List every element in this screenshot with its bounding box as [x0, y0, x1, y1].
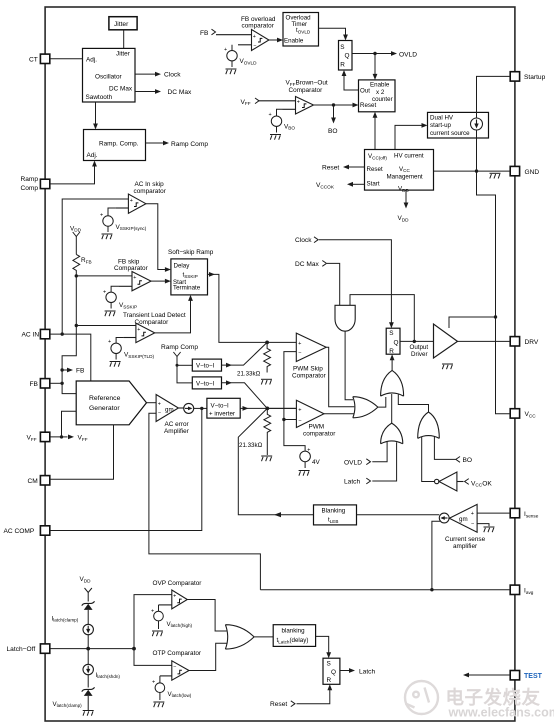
comparator FB skip: [119, 272, 151, 291]
source V latch high: [154, 605, 164, 629]
wire sawtooth to ramp comp: [95, 102, 97, 124]
label DC Max input: [295, 261, 327, 269]
svg-text:+: +: [151, 608, 154, 614]
wire Iavg riser to gm minus input: [149, 413, 261, 589]
svg-text:gm: gm: [459, 516, 468, 523]
svg-text:Jitter: Jitter: [116, 50, 131, 57]
gate OR D (bo vccok): [418, 412, 440, 438]
wire BO stub down: [333, 105, 335, 118]
wire riser to OTP plus: [134, 649, 172, 666]
svg-text:−: −: [253, 43, 256, 49]
svg-text:CM: CM: [28, 478, 38, 485]
label V_SSKIP: [119, 302, 137, 309]
wire DC Max output arrow: [135, 91, 156, 93]
ground under resistor lower: [261, 456, 272, 461]
wire jitter to oscillator: [123, 30, 125, 49]
label V_SSKIP(sync): [116, 224, 147, 231]
Y input symbol Ramp Comp: [173, 352, 192, 383]
comparator OVP: [159, 590, 188, 609]
svg-text:current source: current source: [430, 130, 470, 137]
wire FB label stub: [62, 369, 67, 371]
label OVLD out: [399, 51, 417, 58]
watermark logo circle: [405, 681, 438, 714]
label FB overload comparator: [241, 16, 276, 30]
svg-text:−: −: [298, 351, 301, 357]
svg-text:Q: Q: [394, 340, 399, 347]
label VDD stub: [398, 215, 410, 222]
svg-text:OVP Comparator: OVP Comparator: [153, 580, 203, 587]
svg-text:DC Max: DC Max: [168, 89, 193, 96]
svg-text:Adj.: Adj.: [87, 152, 98, 159]
svg-text:+: +: [100, 212, 103, 218]
label PWM comparator: [303, 423, 336, 437]
svg-text:FB: FB: [30, 381, 39, 388]
label Clock input: [295, 237, 318, 244]
svg-text:21.33kΩ: 21.33kΩ: [239, 442, 263, 449]
svg-text:OVLD: OVLD: [344, 459, 362, 466]
wire OR D output to OR A: [398, 394, 428, 412]
wire VCC to driver top: [449, 317, 496, 328]
wire comparator to timer arrow: [269, 39, 278, 41]
pin CT: [29, 54, 50, 63]
svg-text:+: +: [298, 407, 301, 413]
comparator AC In skip: [116, 194, 146, 213]
buffer output driver: [434, 324, 458, 358]
wire Q feedback to AND gate: [350, 295, 414, 342]
pin AC IN: [22, 329, 50, 338]
wire SR2 Q to driver: [400, 340, 434, 342]
svg-text:S: S: [389, 330, 393, 337]
svg-text:Jitter: Jitter: [114, 21, 129, 28]
svg-text:S: S: [340, 44, 344, 51]
label OVP Comparator: [153, 580, 203, 587]
wire startup pin to current source: [477, 76, 511, 118]
wire Iavg pin line: [260, 589, 510, 591]
svg-text:comparator: comparator: [134, 188, 167, 195]
label V_SSKIP(TLD): [124, 352, 154, 359]
svg-text:Ramp: Ramp: [21, 176, 39, 183]
wire current source down to GND rail junction: [476, 130, 478, 171]
counter x2 box: [359, 80, 396, 112]
wire blanking riser diagonal to junction2: [238, 408, 313, 514]
svg-text:+: +: [108, 339, 111, 345]
svg-text:+: +: [158, 401, 161, 407]
comparator PWM skip: [296, 333, 326, 361]
wire TEST arrow: [468, 674, 511, 676]
wire VDD stub below VCC mgmt: [405, 190, 407, 203]
wire HV current to Dual HV box: [395, 125, 422, 149]
svg-text:gm: gm: [165, 407, 174, 414]
label V latch low: [168, 691, 192, 698]
wire VCCOK inverter to OR D: [422, 437, 435, 482]
svg-text:+ inverter: + inverter: [209, 410, 235, 417]
watermark url text: [448, 706, 554, 720]
source V_SSKIP: [106, 286, 119, 308]
svg-text:comparator: comparator: [242, 23, 275, 30]
svg-text:PWM: PWM: [309, 423, 325, 430]
svg-text:Sawtooth: Sawtooth: [86, 94, 113, 101]
label 4V: [312, 459, 321, 466]
label Output Driver: [410, 344, 429, 358]
label Current sense amplifier: [445, 536, 486, 550]
svg-text:Comparator: Comparator: [114, 265, 149, 272]
wire Isense pin to plus input: [477, 512, 510, 514]
flipflop SR2: [386, 328, 400, 355]
pin DRV: [510, 337, 539, 347]
svg-text:VCCOK: VCCOK: [471, 480, 492, 487]
label FB skip Comparator: [114, 258, 149, 272]
ground at current sense: [484, 527, 495, 532]
opamp current sense gm: [449, 504, 477, 532]
svg-text:Comparator: Comparator: [289, 87, 324, 94]
current source I latch shdn: [83, 664, 93, 674]
svg-text:−: −: [173, 665, 176, 671]
svg-text:V−to−I: V−to−I: [211, 403, 230, 410]
wire VCCOK output arrow: [352, 183, 365, 185]
svg-text:Clock: Clock: [164, 72, 181, 79]
svg-text:Amplifier: Amplifier: [164, 428, 190, 435]
svg-text:−: −: [158, 411, 161, 417]
svg-text:+: +: [298, 341, 301, 347]
label I latch clamp: [52, 615, 79, 622]
svg-text:Delay: Delay: [174, 263, 191, 270]
wire inverter output to PWM junction: [240, 407, 296, 409]
label VDD latch rail: [80, 576, 92, 583]
wire OR C output to OR A: [391, 394, 393, 423]
gate AND: [335, 305, 355, 331]
comparator TLD: [123, 323, 154, 343]
block reference generator: [76, 381, 146, 425]
wire minus input to ground: [477, 524, 489, 527]
label Latch output: [359, 668, 375, 675]
source V latch low: [155, 676, 165, 700]
wire refgen output to gm amp: [147, 402, 157, 404]
label V latch clamp: [53, 701, 83, 708]
wire Reset output arrow: [348, 166, 365, 168]
svg-text:+: +: [130, 198, 133, 204]
label PWM Skip Comparator: [292, 365, 327, 379]
wire SR3 Q to Latch label: [340, 670, 350, 672]
svg-text:Enable: Enable: [284, 38, 304, 45]
label FB stub: [76, 368, 85, 375]
label VCCOK input: [465, 479, 493, 488]
VDD arrow symbol at RFB: [73, 232, 80, 254]
ground under V_SSKIP(TLD): [110, 362, 121, 367]
label DC Max: [168, 89, 193, 96]
wire V-to-I lower output diagonal to junction2: [222, 383, 268, 409]
svg-text:4V: 4V: [312, 459, 321, 466]
svg-text:Current sense: Current sense: [445, 536, 486, 543]
svg-text:PWM Skip: PWM Skip: [293, 365, 323, 372]
wire current sense output to blanking: [357, 514, 440, 516]
svg-text:+: +: [471, 511, 474, 517]
svg-text:Start: Start: [367, 181, 380, 188]
resistor 21.33k lower: [264, 408, 271, 455]
gate OR C (ovld latch): [381, 423, 403, 444]
wire timer to SR1 S input: [319, 28, 346, 35]
zener diode upper: [82, 601, 95, 605]
svg-text:Driver: Driver: [411, 351, 428, 358]
resistor 21.33k upper: [264, 342, 271, 372]
output circle current sense: [439, 513, 449, 523]
VDD arrow symbol latch rail: [85, 588, 92, 602]
svg-text:Comp: Comp: [21, 185, 39, 192]
pin VCC: [510, 409, 536, 419]
wire PWM skip minus riser: [284, 352, 305, 451]
svg-text:Ramp Comp: Ramp Comp: [161, 344, 198, 351]
pin GND: [510, 166, 539, 175]
svg-text:Reset: Reset: [360, 102, 376, 109]
wire Clock output arrow: [135, 73, 156, 75]
svg-text:+: +: [103, 290, 106, 296]
label Ramp Comp out: [171, 141, 208, 148]
oscillator block: [83, 48, 136, 102]
svg-text:TEST: TEST: [524, 673, 543, 680]
block Dual HV startup current source: [428, 112, 489, 138]
source V_BO: [271, 109, 282, 132]
block V-to-I upper: [192, 359, 221, 371]
svg-text:Reset: Reset: [367, 166, 383, 173]
Ramp. Comp. block: [84, 130, 146, 161]
ground earth at GND pin: [490, 173, 501, 178]
wire BO comparator output to x2 reset: [314, 104, 354, 106]
svg-text:DRV: DRV: [525, 339, 539, 346]
svg-text:Enable: Enable: [370, 81, 390, 88]
flipflop SR3: [323, 658, 340, 684]
gate OR E: [225, 625, 254, 649]
wire zener to CS1: [87, 610, 89, 624]
svg-text:Timer: Timer: [292, 21, 308, 28]
wire VCC rail down right side: [477, 171, 511, 414]
current source symbol in Dual HV: [471, 118, 483, 130]
wire AC In skip output to soft-skip box: [146, 204, 166, 270]
svg-text:+: +: [152, 680, 155, 686]
inverter VCCOK: [435, 472, 464, 491]
svg-text:www.elecfans.com: www.elecfans.com: [448, 706, 554, 720]
wire AC COMP pin riser: [50, 408, 202, 530]
svg-text:Clock: Clock: [295, 237, 312, 244]
wire Q junction down to x2 counter enable: [374, 54, 376, 75]
wire junction2 to PWM comp +: [267, 407, 296, 409]
svg-text:−: −: [471, 521, 474, 527]
wire Latch input to OR C: [372, 442, 396, 481]
wire VFF pin riser to refgen: [50, 411, 76, 437]
wire AC IN pin riser to comparator: [50, 199, 129, 334]
comparator OTP: [160, 661, 189, 680]
pin Latch-Off: [7, 644, 50, 653]
svg-text:+: +: [269, 112, 272, 118]
svg-text:AC error: AC error: [165, 421, 190, 428]
svg-text:Q: Q: [345, 53, 350, 60]
label OVLD input: [344, 459, 371, 467]
block soft-skip ramp: [171, 259, 208, 295]
svg-text:BO: BO: [463, 457, 473, 464]
wire FB skip output to soft-skip box: [151, 280, 166, 282]
svg-text:OTP Comparator: OTP Comparator: [153, 650, 202, 657]
label I latch shdn: [96, 672, 121, 679]
wire Iavg branch from sense output: [432, 521, 440, 589]
ground under V latch high: [152, 631, 163, 636]
label BO input: [456, 457, 472, 465]
wire Reset to SR3 R: [297, 690, 330, 704]
wire PWM comp output to OR B: [324, 413, 355, 415]
svg-text:Ramp Comp: Ramp Comp: [171, 141, 208, 148]
svg-text:amplifier: amplifier: [453, 543, 478, 550]
pin TEST: [510, 671, 542, 680]
Jitter box: [109, 17, 137, 30]
wire RampComp pin to adj input: [50, 166, 95, 184]
svg-text:R: R: [340, 62, 345, 69]
svg-text:CT: CT: [29, 56, 38, 63]
pin Isense: [510, 508, 539, 518]
svg-text:+: +: [137, 327, 140, 333]
wire latch-off pin to comparator riser: [50, 648, 134, 650]
svg-text:+: +: [133, 275, 136, 281]
svg-text:Ramp. Comp.: Ramp. Comp.: [99, 141, 139, 148]
comparator PWM: [296, 400, 324, 427]
pin Ramp Comp: [21, 176, 50, 192]
svg-text:Management: Management: [387, 174, 423, 181]
svg-text:Dual HV: Dual HV: [430, 115, 454, 122]
wire CS1 to latch-off node: [87, 635, 89, 665]
wire gm output node to V-to-I inverter: [194, 407, 207, 409]
svg-text:Reference: Reference: [89, 395, 121, 402]
wire OR E to blanking2: [254, 636, 273, 638]
summing circle at gm output: [178, 403, 193, 413]
block VCC management: [365, 150, 434, 193]
wire riser to OVP plus: [134, 595, 172, 649]
pin AC COMP: [4, 526, 50, 535]
label VDD at RFB: [70, 225, 82, 232]
block blanking latch delay: [273, 625, 315, 647]
svg-text:Comparator: Comparator: [292, 372, 327, 379]
label VCCOK out: [316, 182, 335, 189]
wire VCC mgmt to GND pin: [434, 170, 511, 172]
wire x2 reset riser from VCC mgmt: [374, 117, 376, 149]
ground under V_BO: [270, 135, 281, 140]
wire OVP output to OR E: [187, 600, 226, 632]
svg-text:+: +: [253, 34, 256, 40]
ground under resistor upper: [261, 379, 272, 384]
ground under V_SSKIP(sync): [102, 234, 113, 239]
label AC In skip comparator: [134, 181, 167, 195]
wire OTP output to OR E: [189, 643, 227, 670]
zener diode lower: [82, 687, 95, 691]
label Clock: [164, 72, 181, 79]
wire VFF label stub: [62, 436, 68, 438]
ground under V_OVLD: [226, 69, 237, 74]
svg-text:GND: GND: [525, 169, 540, 176]
wire PWM skip output to OR B: [326, 347, 354, 407]
wire CS2 to zener lower: [87, 675, 89, 688]
pin VFF: [27, 432, 50, 442]
wire OR A output to SR2 R: [391, 360, 393, 371]
svg-text:AC COMP: AC COMP: [4, 528, 35, 535]
label FB input: [200, 29, 216, 37]
svg-text:Generator: Generator: [89, 405, 120, 412]
svg-text:BO: BO: [328, 128, 338, 135]
svg-text:blanking: blanking: [282, 628, 306, 635]
svg-text:+: +: [297, 99, 300, 105]
svg-text:Oscillator: Oscillator: [95, 74, 123, 81]
wire junction1 to PWM skip +: [267, 341, 296, 343]
svg-text:Latch: Latch: [359, 668, 375, 675]
pin Startup: [510, 72, 545, 81]
svg-text:Soft−skip Ramp: Soft−skip Ramp: [168, 249, 214, 256]
svg-text:Terminate: Terminate: [173, 284, 201, 291]
svg-text:Q: Q: [331, 669, 336, 676]
label 21.33k upper: [237, 371, 261, 378]
ground under driver: [442, 364, 453, 369]
wire AND output to OR B: [345, 331, 353, 400]
source V_SSKIP(sync): [103, 208, 116, 232]
svg-text:S: S: [327, 661, 331, 668]
svg-text:start-up: start-up: [430, 122, 452, 129]
svg-text:FB: FB: [76, 368, 85, 375]
pin Iavg: [510, 585, 534, 595]
svg-text:+: +: [307, 447, 310, 453]
label RFB: [81, 257, 92, 264]
gate OR B (pwm collector): [353, 397, 378, 418]
label Transient Load Detect Comparator: [123, 312, 186, 326]
wire zener lower to ground: [87, 696, 89, 710]
wire FB pin to net: [50, 382, 62, 384]
wire TLD output up into soft-skip box: [155, 301, 191, 333]
block Blanking tLEB: [314, 505, 357, 525]
watermark chinese text: [446, 687, 541, 708]
svg-text:AC IN: AC IN: [22, 332, 40, 339]
svg-text:x 2: x 2: [376, 89, 385, 96]
svg-text:Reset: Reset: [322, 165, 339, 172]
svg-text:R: R: [327, 677, 332, 684]
svg-text:Out: Out: [360, 88, 370, 95]
comparator FB overload: [216, 30, 269, 51]
wire Clock to SR2 S: [319, 240, 391, 323]
svg-text:+: +: [173, 594, 176, 600]
flipflop SR1: [339, 41, 353, 71]
wire SR1 Q to OVLD label: [352, 53, 392, 55]
wire ramp comp output arrow: [146, 142, 165, 144]
pin FB: [30, 379, 50, 388]
label Soft-skip Ramp: [168, 249, 214, 256]
label V_BO: [284, 123, 295, 130]
block V-to-I inverter: [207, 398, 240, 418]
svg-text:DC Max: DC Max: [295, 261, 320, 268]
wire BO input to OR D: [434, 436, 455, 459]
wire blanking2 to SR3 S: [316, 636, 329, 652]
svg-text:V−to−I: V−to−I: [196, 380, 215, 387]
wire soft-skip output to PWM junction riser: [208, 274, 268, 342]
source V_SSKIP(TLD): [111, 338, 124, 360]
gate OR A (reset collector): [381, 370, 404, 396]
block V-to-I lower: [192, 377, 221, 389]
label Ramp Comp input: [161, 344, 198, 351]
svg-text:FB: FB: [200, 30, 209, 37]
wire CT to oscillator: [50, 58, 83, 60]
wire RFB to FB skip + input: [76, 275, 132, 277]
label Latch input: [344, 478, 371, 486]
wire AC IN to reference generator top: [62, 334, 91, 381]
svg-text:R: R: [389, 348, 394, 355]
svg-text:21.33kΩ: 21.33kΩ: [237, 371, 261, 378]
label OTP Comparator: [153, 650, 202, 657]
svg-text:Latch−Off: Latch−Off: [7, 646, 36, 653]
wire RFB net down to FB column: [62, 276, 76, 394]
label Reset (VCC mgmt): [322, 165, 339, 172]
svg-text:Blanking: Blanking: [322, 508, 346, 515]
wire V-to-I upper output diagonal to junction1: [222, 342, 268, 365]
pin CM: [28, 476, 50, 485]
